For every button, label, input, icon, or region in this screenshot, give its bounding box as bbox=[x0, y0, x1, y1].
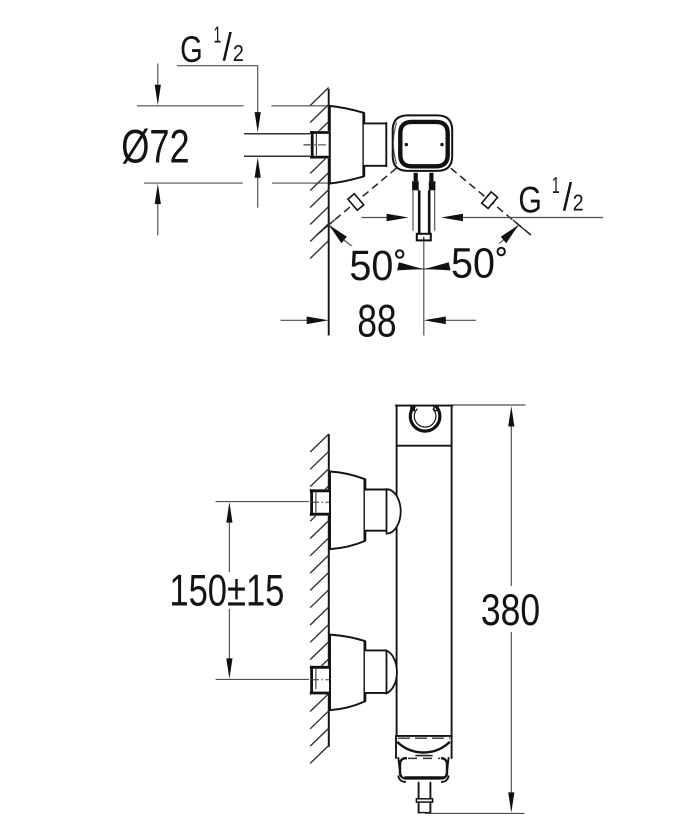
svg-text:G: G bbox=[180, 28, 203, 70]
dimension Ø72 extension lines bbox=[137, 106, 332, 183]
label G 1/2 (top-left thread label) bbox=[180, 22, 244, 70]
connection cylinder (top view) bbox=[364, 123, 387, 166]
svg-text:380: 380 bbox=[481, 586, 540, 635]
knob bold ring bbox=[400, 122, 447, 166]
dimension 380 bbox=[425, 405, 540, 813]
G 1/2 dimension line with arrows (spout thread) bbox=[362, 214, 604, 222]
svg-text:50: 50 bbox=[349, 242, 393, 290]
wall hatching (top view) bbox=[310, 88, 329, 259]
svg-text:2: 2 bbox=[573, 190, 584, 216]
upper escutcheon cone (front view) bbox=[330, 472, 365, 550]
label G 1/2 (right, hose thread) bbox=[518, 172, 583, 220]
dimension Ø72 arrows bbox=[155, 64, 161, 236]
swivel dashed line left bbox=[317, 168, 397, 235]
wall hatching (front view) bbox=[310, 434, 329, 763]
knob pivot dots bbox=[405, 143, 408, 146]
dimension 150±15 bbox=[166, 502, 288, 679]
escutcheon cone (top view) bbox=[330, 106, 364, 184]
lower wall union square (front view) bbox=[310, 666, 337, 693]
svg-text:150±15: 150±15 bbox=[169, 567, 284, 616]
thread symbol on right swivel line bbox=[482, 192, 498, 209]
spout tip cap bbox=[417, 234, 431, 241]
swivel dashed line right bbox=[451, 168, 531, 235]
mixer body bbox=[396, 405, 453, 736]
upper boss on body bbox=[387, 489, 401, 533]
upper wall union square (front view) bbox=[310, 489, 337, 516]
text 50° right bbox=[451, 240, 505, 288]
white masks under 50° texts bbox=[348, 246, 407, 282]
svg-text:/: / bbox=[563, 176, 572, 219]
dimension 88 bbox=[281, 296, 477, 347]
outlet spout (bottom) bbox=[416, 783, 432, 813]
outlet escutcheon (bottom) bbox=[398, 758, 449, 782]
svg-text:G: G bbox=[518, 178, 542, 220]
wall line (top view) bbox=[328, 89, 330, 336]
shower holder U-ring bbox=[410, 406, 440, 432]
extension line upper connection bbox=[216, 501, 309, 503]
spout centerline (extension for 88) bbox=[423, 241, 425, 336]
lower boss on body bbox=[387, 651, 397, 694]
lower connection nipple bbox=[365, 650, 387, 693]
knob outer outline (squircle) bbox=[393, 115, 453, 170]
extension line lower connection bbox=[216, 678, 309, 680]
thread symbol on left swivel line bbox=[348, 194, 364, 211]
arc arrowheads bbox=[329, 225, 519, 271]
svg-text:1: 1 bbox=[214, 22, 222, 48]
spout outer thin lines bbox=[413, 190, 435, 231]
svg-text:Ø72: Ø72 bbox=[121, 119, 190, 172]
spout tube bbox=[419, 190, 429, 234]
svg-text:1: 1 bbox=[552, 172, 560, 198]
svg-text:50: 50 bbox=[451, 240, 495, 288]
svg-text:88: 88 bbox=[357, 296, 397, 347]
knob rim arcs (left side) bbox=[393, 123, 396, 165]
svg-text:/: / bbox=[223, 26, 232, 69]
spout collars bbox=[412, 181, 435, 190]
text 50° left bbox=[349, 242, 403, 290]
lower escutcheon cone (front view) bbox=[330, 635, 365, 711]
upper connection nipple bbox=[365, 490, 387, 531]
pipe dash-dot centerline bbox=[304, 144, 331, 146]
bottom cap of body bbox=[396, 736, 452, 758]
svg-text:2: 2 bbox=[233, 40, 244, 66]
wall union square (top view) bbox=[304, 131, 331, 159]
leader line from G 1/2 label to supply pipe bbox=[177, 66, 261, 208]
wall line (front view) bbox=[328, 434, 330, 747]
50 degree dimension arc bbox=[329, 225, 519, 269]
supply pipe behind wall bbox=[244, 134, 311, 157]
spout neck bars bbox=[416, 173, 432, 182]
